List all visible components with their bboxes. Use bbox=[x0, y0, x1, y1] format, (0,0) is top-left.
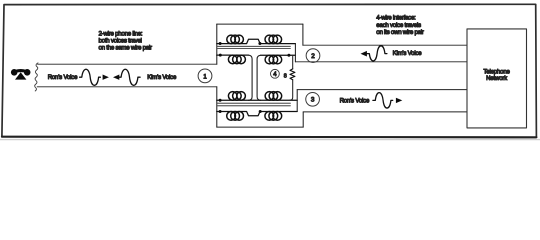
svg-text:each voice travels: each voice travels bbox=[376, 22, 421, 29]
T1 primary coil 1 bbox=[227, 35, 244, 44]
wire: transmit-pair top down to row D right end bbox=[296, 90, 298, 112]
junction dot row D middle bbox=[259, 110, 262, 113]
svg-text:Network: Network bbox=[486, 75, 508, 82]
svg-text:2: 2 bbox=[311, 53, 315, 60]
T2 lower coil 2 bbox=[265, 112, 282, 121]
T1 secondary (row B) right bar bbox=[261, 54, 296, 56]
scan shadow line below frame bbox=[0, 139, 540, 141]
T2 lower coil 1 bbox=[227, 112, 244, 121]
balance rail bottom into row C bbox=[290, 80, 293, 101]
wire: transmit pair top line bbox=[297, 89, 467, 91]
hybrid outline: left edge bottom segment bbox=[216, 87, 218, 127]
frame bottom heavy edge bbox=[2, 136, 537, 139]
svg-text:both voices travel: both voices travel bbox=[99, 37, 142, 44]
T1 secondary (row B) left bar bbox=[217, 54, 249, 56]
wire: 2-wire channel top line bbox=[38, 63, 217, 65]
T2 upper winding 2 loops bbox=[265, 92, 282, 101]
junction dot row B right bbox=[287, 54, 290, 57]
hybrid outer outline: left edge top segment bbox=[216, 24, 218, 64]
node 3 circled label bbox=[306, 92, 320, 106]
svg-text:Ron's Voice: Ron's Voice bbox=[340, 97, 370, 104]
hybrid outline: top edge bbox=[217, 23, 303, 25]
T2 upper winding 1 loops bbox=[228, 92, 245, 101]
T1 primary coil 2 bbox=[265, 35, 282, 44]
wire: bottom edge up to transmit-pair bottom bbox=[302, 112, 304, 127]
junction dot row B left bbox=[219, 54, 222, 57]
wire: receive pair top line bbox=[303, 44, 467, 46]
svg-text:2-wire phone line:: 2-wire phone line: bbox=[99, 30, 143, 37]
left arrow + Kim voice wave (receive pair) bbox=[361, 51, 367, 57]
svg-text:4-wire interface:: 4-wire interface: bbox=[376, 15, 416, 22]
balance network rail top bbox=[292, 55, 294, 69]
wire: receive pair bottom line bbox=[295, 61, 467, 63]
wire: 2-wire channel bottom line bbox=[37, 86, 217, 88]
transformer T1 core lines bbox=[218, 46, 291, 48]
T2 lower winding (row D) bar + dip bbox=[217, 112, 297, 116]
T2 upper winding (row C) bar bbox=[217, 99, 297, 101]
node 1 circled label bbox=[198, 69, 212, 83]
junction dot row C left bbox=[219, 99, 222, 102]
node 2 circled label bbox=[306, 49, 320, 63]
svg-text:8: 8 bbox=[284, 73, 287, 79]
left arrow + Kim voice wave (2-wire line) bbox=[113, 75, 119, 80]
T1 secondary winding 1 loops bbox=[228, 55, 245, 64]
wire: middle vertical link 2 (T1 to T2) bbox=[257, 55, 261, 100]
svg-text:on its own wire pair: on its own wire pair bbox=[376, 29, 424, 36]
svg-text:4: 4 bbox=[273, 72, 277, 78]
junction dot row A left bbox=[219, 42, 222, 45]
2-wire line torn wavy left edge bbox=[35, 63, 38, 91]
Ron voice wave with right arrow (2-wire line) bbox=[80, 69, 101, 85]
svg-text:Kim's Voice: Kim's Voice bbox=[393, 50, 423, 57]
wire: row A right end down to receive-pair bottom bbox=[294, 44, 296, 62]
node 4 circled label bbox=[271, 69, 280, 78]
wire: middle vertical link 1 (T1 to T2) bbox=[249, 55, 253, 100]
T1 primary (row A) bar + bump bbox=[217, 39, 296, 43]
svg-text:1: 1 bbox=[203, 73, 207, 80]
svg-text:3: 3 bbox=[311, 97, 315, 104]
wire: top edge down to receive-pair top bbox=[302, 24, 304, 45]
hybrid outline: bottom edge bbox=[217, 126, 303, 128]
T1 secondary winding 2 loops bbox=[265, 55, 282, 64]
svg-text:Ron's Voice: Ron's Voice bbox=[48, 74, 78, 81]
telephone icon bbox=[11, 69, 31, 80]
outer frame bbox=[2, 4, 537, 137]
junction dot row D left bbox=[219, 110, 222, 113]
svg-text:on the same wire pair: on the same wire pair bbox=[99, 44, 152, 51]
Telephone Network box bbox=[467, 29, 527, 128]
transformer T2 core lines bbox=[218, 103, 291, 106]
resistor (balance network) bbox=[290, 69, 295, 80]
junction dot row A middle bbox=[258, 42, 261, 45]
wire: transmit pair bottom line bbox=[303, 111, 467, 113]
svg-text:Kim's Voice: Kim's Voice bbox=[147, 74, 177, 81]
Ron voice wave with right arrow (transmit pair) bbox=[373, 93, 393, 108]
